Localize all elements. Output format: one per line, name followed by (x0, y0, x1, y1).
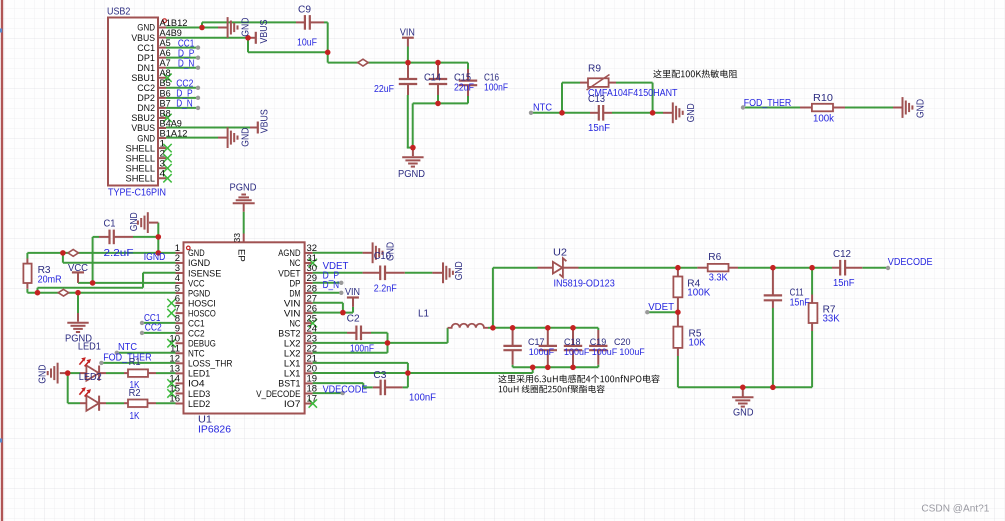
svg-text:LED2: LED2 (188, 399, 210, 410)
svg-text:FOD_THER: FOD_THER (103, 352, 151, 363)
svg-text:33K: 33K (823, 314, 840, 325)
svg-text:15nF: 15nF (588, 123, 610, 134)
svg-text:100uF: 100uF (619, 347, 645, 357)
svg-text:LED1: LED1 (78, 341, 101, 352)
svg-text:GND: GND (241, 128, 252, 147)
svg-text:VCC: VCC (68, 263, 88, 274)
svg-text:D_N: D_N (323, 280, 340, 291)
svg-text:C10: C10 (374, 251, 391, 262)
svg-text:100K: 100K (687, 287, 710, 298)
svg-text:R2: R2 (129, 388, 141, 399)
svg-text:GND: GND (129, 212, 140, 231)
svg-text:C13: C13 (588, 94, 605, 105)
svg-text:16: 16 (169, 394, 180, 405)
svg-text:CC2: CC2 (145, 322, 162, 333)
svg-text:U2: U2 (553, 247, 567, 258)
svg-text:USB2: USB2 (107, 6, 131, 17)
svg-text:3.3K: 3.3K (709, 272, 728, 283)
svg-text:C18: C18 (564, 337, 581, 347)
svg-text:C2: C2 (347, 313, 360, 324)
svg-text:22uF: 22uF (374, 84, 394, 95)
svg-text:2.2uF: 2.2uF (104, 248, 134, 259)
svg-text:IO7: IO7 (284, 399, 301, 410)
svg-text:VIN: VIN (400, 27, 415, 38)
svg-text:15nF: 15nF (790, 297, 810, 308)
svg-text:2.2nF: 2.2nF (374, 283, 397, 294)
svg-text:C1: C1 (104, 219, 116, 230)
svg-text:PGND: PGND (398, 169, 425, 180)
svg-text:15nF: 15nF (833, 278, 855, 289)
svg-text:C14: C14 (424, 73, 441, 84)
svg-text:IGND: IGND (144, 252, 166, 263)
svg-text:VBUS: VBUS (259, 109, 270, 133)
svg-text:LED2: LED2 (79, 372, 102, 383)
svg-text:L1: L1 (418, 308, 429, 319)
svg-text:GND: GND (686, 103, 697, 122)
svg-text:SHELL: SHELL (126, 173, 156, 184)
svg-text:100uF: 100uF (564, 347, 590, 357)
svg-text:VDECODE: VDECODE (888, 257, 933, 268)
svg-text:CSDN @Ant?1: CSDN @Ant?1 (921, 502, 989, 514)
svg-text:PGND: PGND (230, 182, 257, 193)
svg-text:IN5819-OD123: IN5819-OD123 (554, 278, 616, 289)
svg-text:GND: GND (241, 18, 252, 37)
svg-text:D_N: D_N (178, 59, 195, 70)
svg-text:VBUS: VBUS (259, 19, 270, 43)
svg-text:R6: R6 (708, 252, 721, 263)
svg-text:GND: GND (37, 365, 48, 384)
svg-text:R1: R1 (129, 357, 141, 368)
svg-text:100k: 100k (813, 113, 835, 124)
svg-text:D_N: D_N (176, 99, 193, 110)
svg-text:VDECODE: VDECODE (323, 384, 368, 395)
svg-text:GND: GND (733, 408, 754, 419)
svg-text:FOD_THER: FOD_THER (744, 98, 792, 109)
svg-text:VDET: VDET (648, 302, 674, 313)
svg-text:C12: C12 (833, 249, 851, 260)
svg-text:100nF: 100nF (350, 344, 374, 355)
svg-text:IP6826: IP6826 (198, 425, 231, 436)
svg-text:R10: R10 (813, 93, 833, 104)
svg-text:100nF: 100nF (409, 393, 436, 404)
svg-text:C9: C9 (298, 5, 311, 16)
svg-text:C17: C17 (528, 337, 545, 347)
svg-text:4: 4 (160, 169, 166, 180)
svg-text:C3: C3 (373, 370, 386, 381)
svg-text:R9: R9 (588, 63, 601, 74)
svg-text:33: 33 (232, 233, 242, 243)
svg-text:10uF: 10uF (297, 37, 317, 48)
svg-text:100uF: 100uF (592, 347, 618, 357)
svg-text:NTC: NTC (118, 342, 137, 353)
svg-text:100uF: 100uF (529, 347, 555, 357)
svg-text:VIN: VIN (345, 287, 360, 298)
svg-text:100nF: 100nF (484, 83, 508, 94)
svg-text:EP: EP (235, 249, 246, 262)
svg-text:22uF: 22uF (454, 83, 474, 94)
svg-text:10K: 10K (689, 338, 706, 349)
svg-text:1K: 1K (130, 411, 140, 422)
svg-text:NTC: NTC (533, 102, 552, 113)
svg-text:GND: GND (916, 99, 927, 118)
svg-text:17: 17 (307, 394, 318, 405)
svg-text:C20: C20 (614, 337, 631, 347)
svg-text:C19: C19 (590, 337, 607, 347)
svg-text:TYPE-C16PIN: TYPE-C16PIN (108, 187, 166, 198)
svg-text:20mR: 20mR (38, 274, 62, 285)
svg-text:GND: GND (454, 261, 465, 280)
